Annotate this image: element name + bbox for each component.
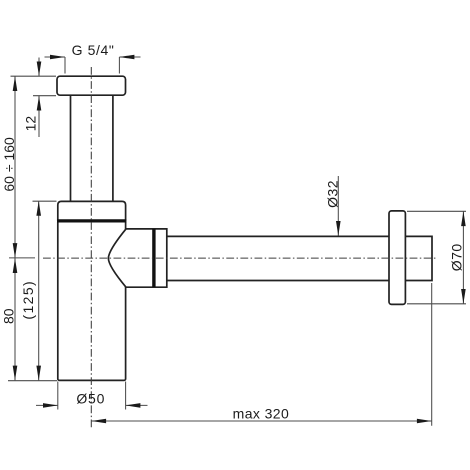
svg-text:G 5/4": G 5/4" (72, 42, 115, 58)
svg-text:Ø32: Ø32 (325, 180, 341, 208)
dim 80 line (14, 258, 16, 380)
svg-text:80: 80 (1, 308, 17, 324)
inlet tube (vertical pipe) (70, 95, 72, 202)
svg-text:12: 12 (22, 116, 38, 132)
svg-text:Ø70: Ø70 (448, 243, 464, 271)
dim max 320 line (91, 420, 431, 422)
horizontal outlet pipe (167, 236, 432, 280)
svg-text:max 320: max 320 (233, 406, 290, 422)
thread flange (top) (57, 76, 126, 95)
dim Ø50 lines (36, 382, 148, 410)
leader Ø32 line (337, 176, 339, 236)
dim Ø70 lines (407, 211, 466, 303)
dim Ø50 arrows (43, 403, 140, 408)
dim (125) arrows (36, 201, 41, 380)
elbow outlet (dome + nut) (108, 229, 166, 287)
extension line pipe end (431, 283, 433, 426)
elbow bold ring (152, 229, 155, 287)
extension line body top (33, 200, 57, 202)
dim G5/4 arrows (50, 55, 134, 60)
extension line body bottom (8, 380, 57, 382)
collar nut on body top (58, 201, 126, 221)
dim G5/4 dimension line (45, 57, 141, 74)
leader Ø32 arrow (336, 221, 341, 236)
vertical centerline (90, 67, 92, 428)
horizontal centerline (43, 257, 436, 259)
dim 60÷160 line (14, 76, 16, 258)
svg-text:Ø50: Ø50 (76, 390, 105, 406)
dim 12 lines (33, 58, 56, 138)
collar bold seam (57, 219, 126, 222)
svg-text:(125): (125) (20, 280, 36, 320)
dim (125) line (38, 201, 40, 380)
dim Ø70 arrows (461, 211, 466, 303)
extension line flange top (11, 75, 57, 77)
body (trap cup) (58, 221, 126, 381)
extension tick at pipe axis (9, 257, 35, 259)
dim 12 arrows (37, 62, 42, 111)
svg-text:60 ÷ 160: 60 ÷ 160 (1, 137, 17, 192)
dim max 320 arrows (91, 419, 431, 424)
dim 60÷160 arrows (13, 76, 18, 258)
wall flange (rosette) (389, 211, 405, 305)
dim 80 arrows (13, 258, 18, 380)
